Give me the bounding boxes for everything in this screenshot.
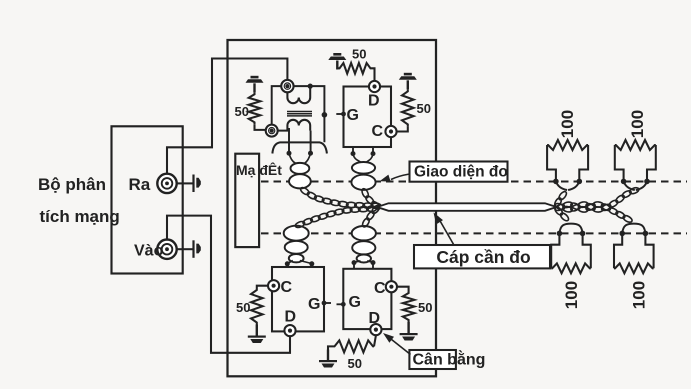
svg-text:Ra: Ra [129, 175, 151, 194]
svg-text:D: D [369, 310, 381, 327]
twisted pair: Q4 choke to cable [361, 217, 371, 228]
resistor 100 bottom-left [551, 263, 591, 273]
resistor 100 top-right [615, 140, 656, 150]
resistor 100 bottom-right [614, 263, 654, 273]
label box: Can bang [409, 350, 456, 369]
resistor 50 (U1 drain bias) [339, 63, 372, 74]
svg-text:100: 100 [628, 110, 647, 138]
svg-text:C: C [372, 123, 384, 140]
svg-text:50: 50 [348, 356, 362, 371]
transformer left terminal [266, 125, 278, 137]
ground below Q3 resistor [256, 325, 258, 336]
transformer input terminal [281, 80, 293, 92]
svg-text:G: G [347, 107, 359, 124]
svg-text:Mạ đÊt: Mạ đÊt [236, 161, 282, 178]
leader arrow to cable [438, 217, 454, 246]
U1 gate [336, 113, 343, 115]
balun choke (Q4 input) [352, 226, 376, 240]
Ra coax connector [157, 174, 176, 193]
grounded shield plate [235, 154, 259, 247]
svg-text:tích mạng: tích mạng [40, 207, 120, 226]
network analyzer box [112, 126, 183, 273]
transformer primary winding [287, 89, 310, 104]
svg-text:100: 100 [558, 110, 577, 138]
Vao shield symbol [192, 240, 194, 257]
dashed line bottom (measurement plane) [261, 232, 687, 234]
svg-text:Giao diện đo: Giao diện đo [414, 164, 508, 181]
balun shield bell [272, 142, 327, 153]
ground above U1 source resistor [407, 80, 409, 89]
svg-text:G: G [308, 296, 320, 313]
svg-text:Cáp cần đo: Cáp cần đo [436, 247, 530, 267]
svg-text:50: 50 [418, 300, 432, 315]
transformer core [287, 111, 312, 113]
ground for drain resistor [336, 61, 338, 70]
leader arrow to Q4 drain [387, 336, 411, 355]
svg-text:50: 50 [417, 101, 431, 116]
balun choke (Q3 input) [284, 226, 309, 241]
resistor 50 (Q4 source) [397, 287, 409, 291]
resistor 50 (balance) [334, 340, 375, 352]
svg-text:Bộ phân: Bộ phân [38, 175, 106, 194]
secondary leads into bell [288, 128, 290, 153]
twisted pair: U1 choke to cable [361, 188, 370, 199]
Q4 drain terminal [370, 324, 381, 335]
balun choke (U1 output) [352, 147, 354, 153]
FET block Q4 [343, 269, 391, 329]
Vao coax connector [157, 240, 176, 259]
coaxial cable under test [377, 203, 557, 211]
svg-text:C: C [374, 280, 386, 297]
main fixture box [228, 40, 437, 376]
twisted pair: cable to 100 top-right (braided) [554, 202, 565, 211]
FET block U1 [344, 87, 392, 148]
twisted pair: cable to 100 bottom-right (braided) [554, 203, 565, 212]
FET block Q3 [272, 267, 324, 331]
leader arrow to interface choke [391, 174, 410, 180]
svg-text:D: D [368, 93, 380, 110]
svg-text:C: C [281, 279, 293, 296]
U1 drain terminal [369, 81, 380, 92]
balun choke (transformer output) [289, 153, 311, 163]
ground above resistor [253, 83, 255, 92]
twisted pair: Q3 choke to cable [294, 220, 305, 228]
svg-text:100: 100 [630, 281, 649, 309]
Q4 gate [337, 303, 344, 305]
twisted pair: cable to 100 top-left [553, 197, 562, 208]
label box: Giao dien do [410, 162, 508, 182]
dashed line top (measurement plane) [261, 180, 687, 182]
Q4 C terminal [386, 281, 397, 292]
ground below Q4 resistor [407, 322, 409, 333]
wire Vao to bottom-left FET drain [167, 216, 290, 353]
label box: Cap can do [414, 245, 550, 268]
twisted pair: transformer choke to cable [299, 186, 310, 196]
svg-text:Cân bằng: Cân bằng [413, 350, 486, 369]
resistor 50 (Q3) [257, 286, 268, 288]
transformer secondary winding [278, 120, 311, 131]
svg-text:50: 50 [235, 104, 249, 119]
svg-text:50: 50 [352, 47, 366, 62]
resistor 50 (U1 source) [402, 89, 414, 126]
wire terminal links [272, 86, 282, 124]
svg-text:100: 100 [562, 281, 581, 309]
twisted pair: cable to 100 bottom-left [553, 206, 563, 217]
Q3 drain terminal [284, 325, 295, 336]
U1 source/C terminal [385, 126, 396, 137]
resistor 50 (transformer primary termination) [249, 92, 261, 124]
Ra shield symbol [192, 175, 194, 193]
ground for balance resistor [327, 350, 329, 361]
wire Ra to transformer [167, 59, 287, 175]
svg-text:G: G [349, 294, 361, 311]
svg-text:50: 50 [236, 300, 250, 315]
Q3 C terminal [268, 280, 279, 291]
svg-text:D: D [285, 309, 297, 326]
svg-text:Vào: Vào [134, 243, 164, 260]
Q3 gate [324, 302, 331, 304]
resistor 100 top-left [547, 140, 588, 150]
